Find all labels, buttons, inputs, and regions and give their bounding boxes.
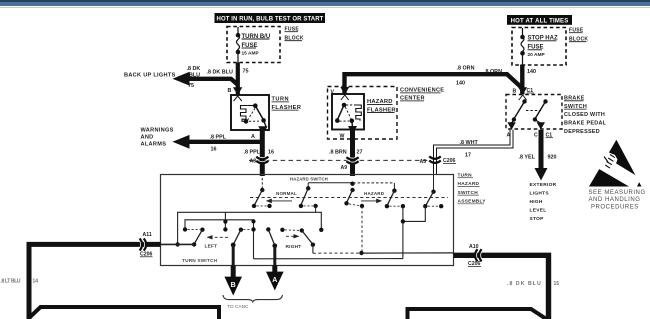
svg-text:PROCEDURES: PROCEDURES [591,204,639,210]
brake switch exit arrows A and C [507,120,545,130]
wire warnings and alarms branch [173,135,263,149]
label .8 ORN 140 (mid) [456,66,475,87]
svg-text:.8 PPL: .8 PPL [210,134,227,140]
label FUSE BLOCK (left) [285,27,304,42]
wire A11 to C206 [29,244,161,319]
fuse STOP HAZ 20A symbol [520,28,525,65]
svg-text:B: B [228,88,232,94]
label .8 ORN 140 (at fuse) [484,69,536,75]
turn flasher internal element [241,103,266,123]
svg-text:WARNINGS: WARNINGS [141,127,174,133]
label .8 PPL 16 (branch) [210,134,227,152]
label .8 DK BLU 15 [507,281,559,287]
label TURN FLASHER [272,97,302,111]
wire turn flasher to A8 [260,131,265,177]
label RIGHT with arrow [286,234,302,250]
svg-text:.8 DK BLU: .8 DK BLU [207,69,233,75]
connector A5 C206 [420,156,457,165]
component box bottom right [408,309,547,319]
svg-text:SEE MEASURING: SEE MEASURING [589,190,646,196]
brake switch contacts [512,99,548,121]
brace TO CANC [223,295,283,310]
label .8 YEL 920 [519,155,557,161]
label SEE MEASURING AND HANDLING PROCEDURES [589,190,646,210]
svg-text:A: A [251,134,255,140]
svg-text:14: 14 [33,278,39,284]
node B C1 brake switch top [513,88,535,95]
label WARNINGS AND ALARMS [141,127,174,147]
wire .8 ORN fuse2 down to junction [520,65,524,95]
label FUSE BLOCK (right) [569,28,588,43]
turn switch contact row [183,227,324,233]
turn flasher U1 box [231,95,269,130]
svg-text:B: B [231,282,236,289]
wire A11 feed inside box [161,243,195,245]
svg-text:.8 WHT: .8 WHT [460,140,479,146]
label NORMAL with arrow [266,191,297,203]
node A turn flasher [251,134,255,140]
wire B output drop [232,245,235,266]
svg-text:.8 YEL: .8 YEL [519,155,536,161]
wire A10 to C206 [454,255,549,319]
svg-text:TURN SWITCH: TURN SWITCH [182,258,218,264]
wire .8 YEL to exterior lights arrow [535,130,548,181]
svg-text:140: 140 [456,80,465,86]
hazard switch linkage dashed bar [250,197,448,199]
svg-text:.8 BRN: .8 BRN [329,149,347,155]
svg-text:16: 16 [211,147,217,153]
wire A output drop [273,246,276,266]
svg-text:BACK UP LIGHTS: BACK UP LIGHTS [124,73,176,79]
turn switch output dots [175,242,315,248]
svg-text:20 AMP: 20 AMP [528,52,546,58]
svg-text:.8 ORN: .8 ORN [484,69,502,75]
hazard flasher U2 box [332,94,364,130]
svg-text:AND HANDLING: AND HANDLING [589,197,641,203]
wire U link contacts to lower bus [401,206,426,258]
svg-text:.8 ORN: .8 ORN [457,66,475,72]
top blue bar [0,0,650,8]
wire C206 dashed connector plane line [249,159,430,161]
ESD warning symbol [589,140,642,187]
turn switch upper link rail [185,212,256,258]
svg-text:17: 17 [465,152,471,158]
wire A10 bus inside box [313,245,454,254]
svg-text:27: 27 [357,149,363,155]
hazard wiper 5 (WHT) [423,175,443,209]
svg-text:CLOSED WITH: CLOSED WITH [564,112,605,118]
connector A10 C206 [468,244,483,267]
wire .8 ORN horizontal run to hazard flasher [345,74,522,94]
label .8 LT BLU 14 [1,278,39,284]
hazard wiper 4 [353,183,405,209]
wire fuse1 to turn flasher [236,63,240,96]
node B turn flasher [228,88,232,94]
svg-text:920: 920 [548,155,557,161]
svg-text:BLU: BLU [189,73,200,79]
svg-text:LEFT: LEFT [205,244,218,250]
B destination arrow [224,266,242,296]
svg-text:HAZARD SWITCH: HAZARD SWITCH [290,177,328,182]
svg-text:15: 15 [554,281,560,287]
label TURN SWITCH [182,258,218,264]
svg-text:HAZARD: HAZARD [364,191,385,196]
svg-text:C: C [534,133,538,139]
header HOT IN RUN BULB TEST OR START [215,13,326,23]
label CONVENIENCE CENTER [400,88,444,102]
svg-text:TO CANC: TO CANC [227,304,249,310]
hazard flasher entry arrow [340,87,349,100]
hazard flasher exit arrow W [340,121,358,140]
hazard wiper 2 [299,183,353,213]
header HOT AT ALL TIMES [507,15,572,25]
label .8 DK BLU 75 (vertical wire) [207,69,249,76]
svg-text:ALARMS: ALARMS [141,141,167,147]
turn switch wipers [194,229,313,245]
node A C C1 brake switch bottom [507,133,554,139]
turn flasher entry arrow [233,87,242,101]
svg-text:NORMAL: NORMAL [276,191,297,196]
fuse block 2 dashed box [512,28,566,66]
svg-text:.8 DK BLU: .8 DK BLU [507,281,542,287]
svg-text:LIGHTS: LIGHTS [530,191,550,197]
fuse TURN B/U 15A symbol [236,27,241,63]
svg-text:.8 DK: .8 DK [187,66,201,72]
svg-text:STOP: STOP [530,216,545,222]
svg-text:.8 PPL: .8 PPL [244,150,261,156]
svg-text:AND: AND [141,134,154,140]
svg-text:A: A [272,277,277,284]
svg-text:75: 75 [243,69,249,75]
svg-text:75: 75 [188,83,194,89]
svg-text:16: 16 [268,150,274,156]
label LEFT with arrow [205,235,229,250]
svg-text:EXTERIOR: EXTERIOR [530,182,557,188]
hazard flasher internal element [335,103,361,123]
node V hazard flasher [331,89,335,95]
wire dashed drop hazard contact to A10 bus [359,206,363,255]
svg-text:A8: A8 [250,158,257,164]
turn hazard switch assembly box [161,175,454,266]
svg-text:BRAKE PEDAL: BRAKE PEDAL [564,121,607,127]
component box bottom left [30,307,220,319]
label BRAKE SWITCH CLOSED WITH BRAKE PEDAL DEPRESSED [564,96,607,135]
label .8 BRN 27 [329,149,363,155]
connector A9 C206 [341,156,359,171]
svg-text:15 AMP: 15 AMP [242,50,260,56]
hazard wiper 3 (A9) [344,182,364,209]
wire hazard flasher W to A9 [350,130,355,176]
label .8 WHT 17 [460,140,479,158]
svg-text:A5: A5 [420,159,427,165]
svg-text:LEVEL: LEVEL [530,208,547,214]
svg-text:DEPRESSED: DEPRESSED [564,129,600,135]
svg-text:HIGH: HIGH [530,199,543,205]
label BACK UP LIGHTS [124,73,176,79]
wire back up lights branch [173,72,238,86]
connector A8 C206 [250,156,269,165]
hazard wiper 1 (A8 normal) [252,178,272,208]
turn flasher exit arrow [258,120,267,134]
label .8 DK BLU 75 (branch) [187,66,201,89]
svg-text:HOT AT ALL TIMES: HOT AT ALL TIMES [511,19,569,25]
label HAZARD FLASHER [367,99,396,113]
svg-text:.8 LT BLU: .8 LT BLU [1,278,21,284]
connector A11 C206 [139,232,153,257]
label HAZARD with arrow [361,191,385,203]
label TURN B/U FUSE 15 AMP [242,34,271,57]
A destination arrow [266,266,284,291]
fuse block 1 dashed box [227,27,280,63]
label .8 PPL 16 (A8 wire) [244,150,275,156]
convenience center dashed box [328,87,398,140]
svg-text:RIGHT: RIGHT [286,244,302,250]
label TURN HAZARD SWITCH ASSEMBLY [458,173,487,205]
label STOP HAZ FUSE 20 AMP [528,36,558,58]
brake switch S1 dashed box [506,95,562,130]
svg-text:W: W [340,133,345,139]
svg-text:A9: A9 [341,165,348,171]
brake switch entry arrow [518,87,527,100]
svg-text:A11: A11 [143,232,152,238]
turn switch feed rail [178,212,322,244]
wire lower B bus [254,258,403,260]
label EXTERIOR LIGHTS HIGH LEVEL STOP [530,182,557,222]
svg-text:140: 140 [527,69,536,75]
svg-text:B: B [513,89,517,95]
label HAZARD SWITCH (inside) [290,177,328,182]
svg-text:HOT IN RUN, BULB TEST OR START: HOT IN RUN, BULB TEST OR START [217,17,324,23]
wire .8 WHT hollow from brake switch A to A5 [435,130,512,175]
